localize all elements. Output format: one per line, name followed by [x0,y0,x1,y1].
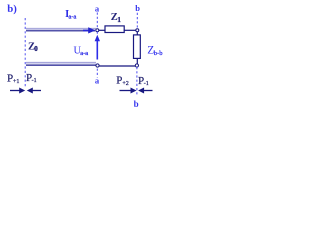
svg-text:b: b [135,3,140,13]
svg-text:a: a [95,3,100,13]
svg-text:a-a: a-a [69,14,77,21]
current arrow head I_a-a [88,27,95,33]
svg-text:0: 0 [34,45,38,53]
transmission line top conductor (outer light line) [26,27,96,29]
voltage arrow U_a-a (shaft) [96,41,98,60]
wire node a to Z1 [99,29,105,31]
transmission line bottom conductor (inner dark line) [26,64,96,66]
left reference plane dashed line [24,18,26,88]
svg-text:b): b) [7,3,17,15]
transmission line bottom conductor (outer light line) [26,61,96,63]
svg-text:-1: -1 [32,78,37,84]
svg-text:a-a: a-a [80,50,88,57]
svg-text:b: b [134,99,139,109]
transmission line top conductor (inner dark line) [26,30,95,32]
node a dashed stub below circle [96,32,98,34]
wire Z1 to node b [124,29,136,31]
node a circle [96,29,99,32]
current arrow I_a-a shaft highlight [83,30,90,32]
svg-text:1: 1 [117,16,121,24]
wire node b down to Zb-b [136,32,138,35]
bottom wire node a to bottom circle b [99,65,135,67]
node a dashed line below bottom circle [96,69,98,78]
impedance Z1 series box [105,26,124,33]
power arrow P-1 right (left-pointing) [138,88,144,94]
node a dashed line (above circle) [96,13,98,28]
power arrow P+1 (right-pointing) [10,90,21,92]
bottom node a circle [96,64,99,67]
wire Zb-b down to bottom circle [136,58,138,64]
power arrow P-1 (left-pointing) [27,88,33,94]
svg-text:a: a [95,75,100,85]
node b dashed line (above circle) [136,13,138,28]
bottom conductor inner faint fill [26,63,96,65]
svg-text:b-b: b-b [154,50,163,57]
node b circle [136,29,139,32]
impedance Zb-b shunt box [134,35,141,59]
node b dashed line below bottom circle [136,67,138,96]
svg-text:+2: +2 [122,81,128,87]
voltage arrow U_a-a (head) [95,35,100,41]
power arrow P+2 (right-pointing) [120,90,132,92]
svg-text:+1: +1 [13,79,19,85]
top conductor inner faint fill [26,29,96,31]
bottom circle b [135,64,138,67]
svg-text:-1: -1 [144,81,149,87]
